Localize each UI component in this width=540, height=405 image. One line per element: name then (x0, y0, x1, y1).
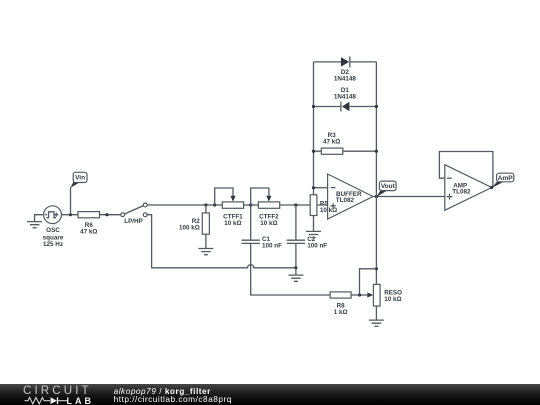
junction dots D1 branch (312, 105, 315, 108)
potentiometer RESO (360, 269, 403, 320)
wire feedback left vertical (313, 62, 315, 188)
credit text (114, 387, 232, 403)
diode D1 (314, 87, 377, 111)
wire buffer output to AMP (373, 196, 445, 198)
flag Vin (70, 172, 87, 188)
wire switch lower throw down and right (HP return) (147, 215, 296, 268)
svg-text:47 kΩ: 47 kΩ (323, 138, 340, 145)
junction dot R8/RESO wiper (358, 293, 361, 296)
svg-text:10 kΩ: 10 kΩ (384, 296, 401, 303)
resistor R3 (314, 132, 377, 154)
wire CTFF2 to buffer + input (280, 204, 328, 206)
footer bar (0, 384, 540, 405)
svg-text:10 kΩ: 10 kΩ (260, 220, 277, 227)
resistor R8 (330, 292, 359, 316)
svg-text:125 Hz: 125 Hz (43, 241, 63, 248)
wire OSC right lead to R6 (61, 214, 78, 216)
svg-text:100 nF: 100 nF (307, 243, 327, 250)
svg-text:1N4148: 1N4148 (334, 75, 357, 82)
ground (R2) (198, 249, 213, 255)
logo CIRCUIT (23, 386, 92, 396)
ground (RESO) (369, 320, 384, 326)
ground (OSC) (27, 222, 42, 228)
wire OSC left lead (35, 215, 44, 222)
wire CTFF1 to CTFF2 (244, 204, 259, 206)
resistor R6 (78, 212, 100, 236)
logo LAB (67, 397, 95, 405)
junction dot CTFF1 loop (213, 203, 216, 206)
logo resistor+diode glyph (24, 396, 68, 405)
wire R6 to switch (100, 214, 121, 216)
switch LP/HP (121, 203, 147, 225)
junction dot RESO top (375, 267, 378, 270)
svg-text:TL082: TL082 (452, 188, 471, 195)
junction dot AMP output (490, 186, 493, 189)
svg-text:100 kΩ: 100 kΩ (179, 224, 200, 231)
svg-text:Vin: Vin (75, 175, 85, 182)
svg-text:OSC: OSC (46, 227, 60, 234)
junction dot R2 top (204, 203, 207, 206)
diode D2 (314, 56, 377, 82)
resistor R2 (179, 205, 209, 248)
junction dot buffer minus (312, 186, 315, 189)
wire minus input buffer (314, 187, 328, 189)
svg-text:10 kΩ: 10 kΩ (224, 220, 241, 227)
svg-text:1 kΩ: 1 kΩ (334, 309, 348, 316)
resistor R5 (310, 188, 317, 232)
svg-text:47 kΩ: 47 kΩ (80, 229, 97, 236)
junction dot C1 top (249, 203, 252, 206)
flag AmP (492, 173, 514, 188)
potentiometer CTFF2 (251, 188, 280, 227)
junction dot C2 top (294, 203, 297, 206)
oscillator OSC (44, 206, 62, 224)
junction dot C2 ground (294, 266, 297, 269)
wire feedback right vertical (375, 62, 377, 285)
svg-text:Vout: Vout (381, 183, 396, 190)
wire Vin stem (70, 187, 72, 215)
op-amp U2 AMP (439, 152, 493, 211)
node Vin junction (69, 213, 72, 216)
svg-text:TL082: TL082 (336, 197, 355, 204)
junction dot after R6 (105, 213, 108, 216)
potentiometer CTFF1 (215, 188, 244, 227)
junction dots R3 branch (312, 150, 315, 153)
flag Vout (376, 181, 396, 197)
ground (R5) (306, 231, 321, 237)
ground (C2) (288, 268, 303, 282)
svg-text:LP/HP: LP/HP (124, 218, 143, 225)
svg-text:AmP: AmP (498, 175, 513, 182)
capacitor C2 (287, 205, 328, 268)
svg-text:10 kΩ: 10 kΩ (320, 207, 337, 214)
wire switch upper throw to CTFF1 (147, 204, 222, 206)
svg-text:100 nF: 100 nF (262, 243, 282, 250)
svg-text:1N4148: 1N4148 (334, 93, 357, 100)
label R5 value (320, 201, 337, 214)
capacitor C1 (242, 205, 331, 295)
label OSC value (43, 227, 64, 248)
op-amp U1 BUFFER (328, 174, 373, 219)
node Vout junction (375, 195, 378, 198)
